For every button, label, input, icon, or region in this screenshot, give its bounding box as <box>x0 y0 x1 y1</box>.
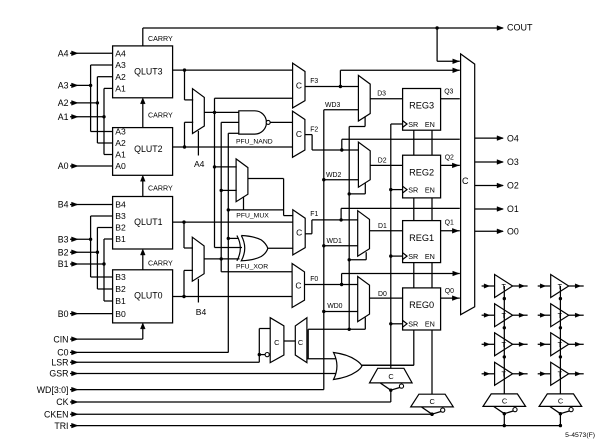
svg-text:EN: EN <box>425 252 435 261</box>
svg-text:QLUT3: QLUT3 <box>134 66 162 76</box>
svg-text:SR: SR <box>408 185 418 194</box>
svg-text:A2: A2 <box>115 72 126 82</box>
svg-text:EN: EN <box>425 185 435 194</box>
svg-text:O2: O2 <box>507 181 519 191</box>
svg-text:B4: B4 <box>115 200 126 210</box>
svg-text:C: C <box>298 338 304 347</box>
svg-text:C: C <box>296 129 302 139</box>
svg-text:Q1: Q1 <box>445 220 454 227</box>
svg-text:QLUT2: QLUT2 <box>134 144 162 154</box>
svg-text:A0: A0 <box>115 161 126 171</box>
svg-text:PFU_NAND: PFU_NAND <box>236 139 273 146</box>
svg-text:C0: C0 <box>57 348 68 358</box>
svg-text:WD3: WD3 <box>325 102 340 109</box>
svg-text:CARRY: CARRY <box>148 185 173 193</box>
svg-text:B3: B3 <box>115 211 126 221</box>
svg-text:C: C <box>274 338 280 347</box>
svg-text:A0: A0 <box>58 161 69 171</box>
svg-text:C: C <box>388 372 394 381</box>
svg-text:Q3: Q3 <box>444 89 453 96</box>
svg-text:O1: O1 <box>507 204 519 214</box>
svg-text:LSR: LSR <box>51 358 68 368</box>
svg-text:WD[3:0]: WD[3:0] <box>37 385 69 395</box>
svg-text:SR: SR <box>408 252 418 261</box>
svg-text:B1: B1 <box>115 296 126 306</box>
svg-text:EN: EN <box>425 120 435 129</box>
svg-text:B0: B0 <box>58 309 69 319</box>
svg-text:A1: A1 <box>58 112 69 122</box>
svg-text:Q0: Q0 <box>445 288 454 295</box>
svg-text:O0: O0 <box>507 227 519 237</box>
svg-text:B2: B2 <box>115 284 126 294</box>
svg-text:A3: A3 <box>58 81 69 91</box>
svg-text:C: C <box>558 397 564 406</box>
svg-text:O4: O4 <box>507 133 519 143</box>
svg-text:T: T <box>558 311 563 320</box>
svg-text:D3: D3 <box>377 90 386 97</box>
svg-text:COUT: COUT <box>507 22 533 32</box>
svg-text:5-4573(F): 5-4573(F) <box>565 432 595 439</box>
svg-text:CK: CK <box>56 397 68 407</box>
svg-text:T: T <box>558 340 563 349</box>
svg-text:T: T <box>558 370 563 379</box>
svg-text:WD2: WD2 <box>326 172 341 179</box>
svg-text:REG0: REG0 <box>409 300 434 310</box>
svg-text:C: C <box>295 281 301 291</box>
svg-text:D2: D2 <box>378 157 387 164</box>
svg-text:CARRY: CARRY <box>148 35 173 43</box>
svg-text:B4: B4 <box>58 200 69 210</box>
svg-text:B4: B4 <box>196 307 207 317</box>
svg-text:SR: SR <box>408 120 418 129</box>
svg-text:F0: F0 <box>310 276 318 283</box>
svg-text:CIN: CIN <box>53 334 68 344</box>
svg-text:T: T <box>502 370 507 379</box>
svg-text:REG1: REG1 <box>409 233 434 243</box>
svg-text:A3: A3 <box>115 60 126 70</box>
svg-text:A1: A1 <box>115 150 126 160</box>
svg-text:A4: A4 <box>194 159 205 169</box>
svg-text:D0: D0 <box>378 291 387 298</box>
svg-text:A3: A3 <box>115 127 126 137</box>
svg-text:SR: SR <box>408 320 418 329</box>
svg-text:T: T <box>502 311 507 320</box>
svg-text:C: C <box>296 227 302 237</box>
svg-text:CARRY: CARRY <box>148 260 173 268</box>
svg-text:PFU_XOR: PFU_XOR <box>236 263 268 270</box>
svg-text:B3: B3 <box>58 235 69 245</box>
svg-text:T: T <box>502 340 507 349</box>
svg-text:REG2: REG2 <box>409 167 434 177</box>
svg-text:C: C <box>296 81 302 91</box>
svg-text:WD0: WD0 <box>327 303 342 310</box>
svg-text:B1: B1 <box>115 234 126 244</box>
svg-text:F2: F2 <box>310 127 318 134</box>
svg-text:T: T <box>502 282 507 291</box>
svg-text:B0: B0 <box>115 309 126 319</box>
svg-text:CARRY: CARRY <box>148 112 173 120</box>
svg-text:O3: O3 <box>507 157 519 167</box>
svg-text:WD1: WD1 <box>327 238 342 245</box>
svg-text:GSR: GSR <box>49 369 68 379</box>
svg-text:B1: B1 <box>58 259 69 269</box>
svg-text:B2: B2 <box>58 247 69 257</box>
svg-text:C: C <box>502 397 508 406</box>
svg-text:C: C <box>462 176 469 186</box>
svg-text:F3: F3 <box>310 78 318 85</box>
svg-text:B2: B2 <box>115 223 126 233</box>
svg-text:C: C <box>430 397 436 406</box>
svg-text:REG3: REG3 <box>409 101 434 111</box>
svg-text:D1: D1 <box>378 223 387 230</box>
svg-text:F1: F1 <box>310 211 318 218</box>
svg-text:TRI: TRI <box>54 421 68 431</box>
svg-text:A4: A4 <box>115 49 126 59</box>
svg-text:CKEN: CKEN <box>44 409 68 419</box>
svg-text:B3: B3 <box>115 272 126 282</box>
svg-text:EN: EN <box>425 320 435 329</box>
svg-text:PFU_MUX: PFU_MUX <box>236 212 269 219</box>
svg-text:A1: A1 <box>115 84 126 94</box>
svg-text:A2: A2 <box>58 98 69 108</box>
svg-text:Q2: Q2 <box>445 155 454 162</box>
svg-text:QLUT0: QLUT0 <box>134 290 162 300</box>
svg-text:T: T <box>558 282 563 291</box>
svg-text:A4: A4 <box>58 49 69 59</box>
svg-text:A2: A2 <box>115 138 126 148</box>
svg-text:QLUT1: QLUT1 <box>134 217 162 227</box>
